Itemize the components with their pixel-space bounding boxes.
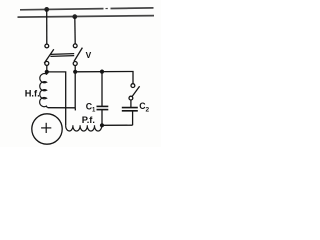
wire: drop from bus 1 to switch left pole <box>46 9 48 44</box>
svg-text:V: V <box>86 50 92 60</box>
svg-text:C2: C2 <box>139 101 149 113</box>
wire: S2 to C2 top plate <box>130 100 132 107</box>
capacitor C2 <box>122 108 138 111</box>
inductor P.f. (coil, bumps down) <box>66 125 102 131</box>
switch V: left blade <box>44 49 54 63</box>
wire: node B right to C2 branch corner <box>75 72 133 84</box>
switch V: right blade <box>74 48 82 62</box>
supply bus line 2 <box>18 16 155 18</box>
wire: drop from bus 2 to switch right pole <box>74 17 76 44</box>
wire: Hf coil bottom to right riser (crosses vertical wire, no junction) <box>48 107 75 109</box>
capacitor C1 <box>97 106 109 109</box>
node A junction dot <box>45 70 49 74</box>
switch V: right pole bottom contact <box>73 62 77 66</box>
junction dot on bus line 2 <box>72 14 77 19</box>
switch V: right pole top contact <box>73 44 77 48</box>
wire: node A to Pf coil (right then down) <box>47 72 66 125</box>
node C1-tap junction dot <box>100 70 104 74</box>
plus mark inside generator <box>41 123 51 133</box>
svg-text:C1: C1 <box>86 101 96 113</box>
switch V: left pole top contact <box>45 44 49 48</box>
generator / arc converter (circle with plus) <box>32 114 62 144</box>
wire: right pole to node B <box>74 66 76 72</box>
wire: C1 top lead <box>101 72 103 106</box>
svg-text:P.f.: P.f. <box>82 115 95 125</box>
wire: left pole to node A <box>46 65 48 72</box>
switch S2: blade <box>132 86 139 96</box>
node C junction dot (Pf / C1 / C2 bottom) <box>100 123 104 127</box>
supply bus line 1 (top) <box>20 8 154 10</box>
node B junction dot <box>73 70 77 74</box>
switch V: left pole bottom contact <box>45 61 49 65</box>
inductor H.f. (choke coil) <box>40 72 48 108</box>
wire: C2 bottom lead down <box>132 111 134 125</box>
wire: node B down to Hf bottom wire <box>74 72 76 111</box>
switch S2: bottom contact <box>129 96 133 100</box>
svg-text:H.f.: H.f. <box>25 89 40 99</box>
wire: bottom return (node C to C2) <box>102 124 133 126</box>
switch V: gang linkage bar (double line) <box>50 54 74 57</box>
junction dot on bus line 1 <box>44 7 49 12</box>
wire: C1 bottom lead <box>101 110 103 125</box>
switch S2: top contact <box>131 84 135 88</box>
